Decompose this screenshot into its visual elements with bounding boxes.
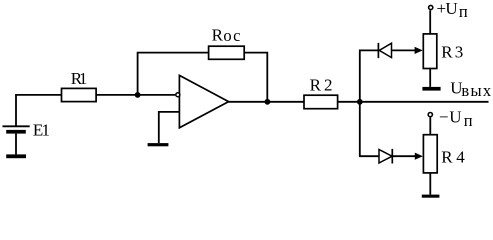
wire node C down to diode VD2: [360, 102, 379, 156]
svg-text:вых: вых: [461, 81, 492, 100]
ground (R3): [422, 87, 440, 91]
battery E1: [3, 126, 30, 133]
svg-text:U: U: [445, 0, 457, 18]
svg-text:−: −: [439, 108, 449, 127]
wire E1 to ground: [15, 134, 17, 155]
wire +Up to R3: [429, 10, 431, 34]
terminal -Up: [428, 113, 432, 117]
svg-text:п: п: [464, 111, 473, 130]
svg-text:2: 2: [324, 76, 333, 95]
diode VD2 (lower, cathode right): [379, 149, 392, 164]
svg-text:R: R: [212, 26, 224, 45]
wire R1 to op-amp inverting input: [96, 94, 175, 96]
label R2: [310, 76, 333, 95]
svg-text:R: R: [441, 148, 453, 167]
resistor R3 (potentiometer): [423, 34, 437, 69]
svg-text:R: R: [441, 43, 453, 62]
svg-text:п: п: [459, 2, 468, 21]
label Roc: [212, 26, 242, 46]
svg-text:1: 1: [79, 69, 88, 88]
wire E1 to R1: [15, 94, 61, 96]
node A junction (op-amp input): [135, 92, 141, 98]
terminal +Up: [429, 5, 433, 9]
R4 wiper arrow: [415, 153, 423, 160]
wire VD1 to R3 wiper: [392, 49, 417, 51]
wire feedback loop: [138, 53, 268, 102]
label R1: [71, 69, 88, 88]
svg-text:1: 1: [42, 121, 51, 140]
wire VD2 to R4 wiper: [392, 155, 416, 157]
wire R4 to ground: [429, 173, 431, 195]
wire -Up to R4: [429, 117, 431, 134]
svg-text:ос: ос: [223, 26, 241, 45]
wire op-amp output to Uvyh: [228, 101, 488, 103]
resistor R4 (potentiometer): [423, 135, 437, 173]
op-amp inverting input bubble: [176, 93, 180, 97]
label E1: [33, 121, 50, 140]
svg-text:U: U: [449, 108, 461, 127]
label Uvyh: [450, 79, 492, 100]
diode VD1 (upper, cathode left): [378, 43, 391, 58]
resistor R2: [304, 95, 338, 109]
svg-text:3: 3: [455, 43, 464, 62]
label R4: [441, 148, 465, 167]
ground (R4): [422, 195, 440, 198]
ground (op-amp noninverting input): [148, 143, 169, 146]
resistor R1: [62, 88, 97, 101]
resistor Roc: [209, 46, 245, 59]
R3 wiper arrow: [415, 47, 423, 54]
node C junction (diode branches): [357, 99, 363, 105]
label R3: [441, 43, 463, 62]
label +Up: [437, 0, 468, 21]
svg-text:4: 4: [456, 148, 465, 167]
label -Up: [439, 108, 473, 130]
wire node C up to diode VD1: [360, 50, 378, 101]
svg-text:R: R: [310, 76, 322, 95]
op-amp U1: [179, 75, 228, 127]
wire R3 to ground: [429, 69, 431, 87]
wire op-amp noninverting input: [159, 112, 180, 143]
ground (E1): [6, 154, 26, 158]
node B junction (feedback/output): [265, 99, 271, 105]
wire E1 top vertical: [15, 95, 17, 126]
